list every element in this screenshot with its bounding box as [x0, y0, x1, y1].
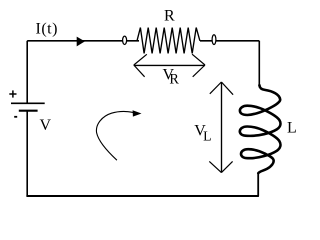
- wire top right of resistor: [200, 40, 259, 42]
- wire right vertical lower: [257, 173, 259, 196]
- resistor terminal ellipse left: [123, 36, 127, 44]
- wire top: [27, 40, 139, 42]
- voltage source V: bottom plate: [19, 110, 38, 112]
- loop current arrowhead: [133, 110, 142, 116]
- loop current curved arrow: [96, 111, 133, 160]
- wire left vertical lower: [26, 111, 28, 196]
- voltage source V: plus sign: [9, 90, 16, 97]
- VL dimension arrow: [209, 82, 233, 173]
- svg-text:L: L: [287, 120, 297, 137]
- VR dimension arrow: [134, 54, 205, 77]
- resistor R zigzag body: [137, 28, 200, 54]
- resistor terminal ellipse right: [212, 35, 216, 45]
- voltage source V: minus sign: [14, 116, 17, 118]
- svg-text:V: V: [40, 117, 52, 134]
- svg-text:I(t): I(t): [36, 21, 58, 38]
- inductor L coil: [240, 85, 281, 173]
- svg-text:R: R: [169, 72, 179, 88]
- svg-text:R: R: [164, 8, 175, 25]
- wire right vertical upper: [258, 41, 260, 86]
- current direction arrow on top wire: [77, 37, 85, 47]
- voltage source V: top plate: [11, 102, 45, 104]
- wire bottom: [26, 195, 259, 197]
- svg-text:L: L: [203, 128, 211, 143]
- wire left vertical upper: [26, 41, 28, 104]
